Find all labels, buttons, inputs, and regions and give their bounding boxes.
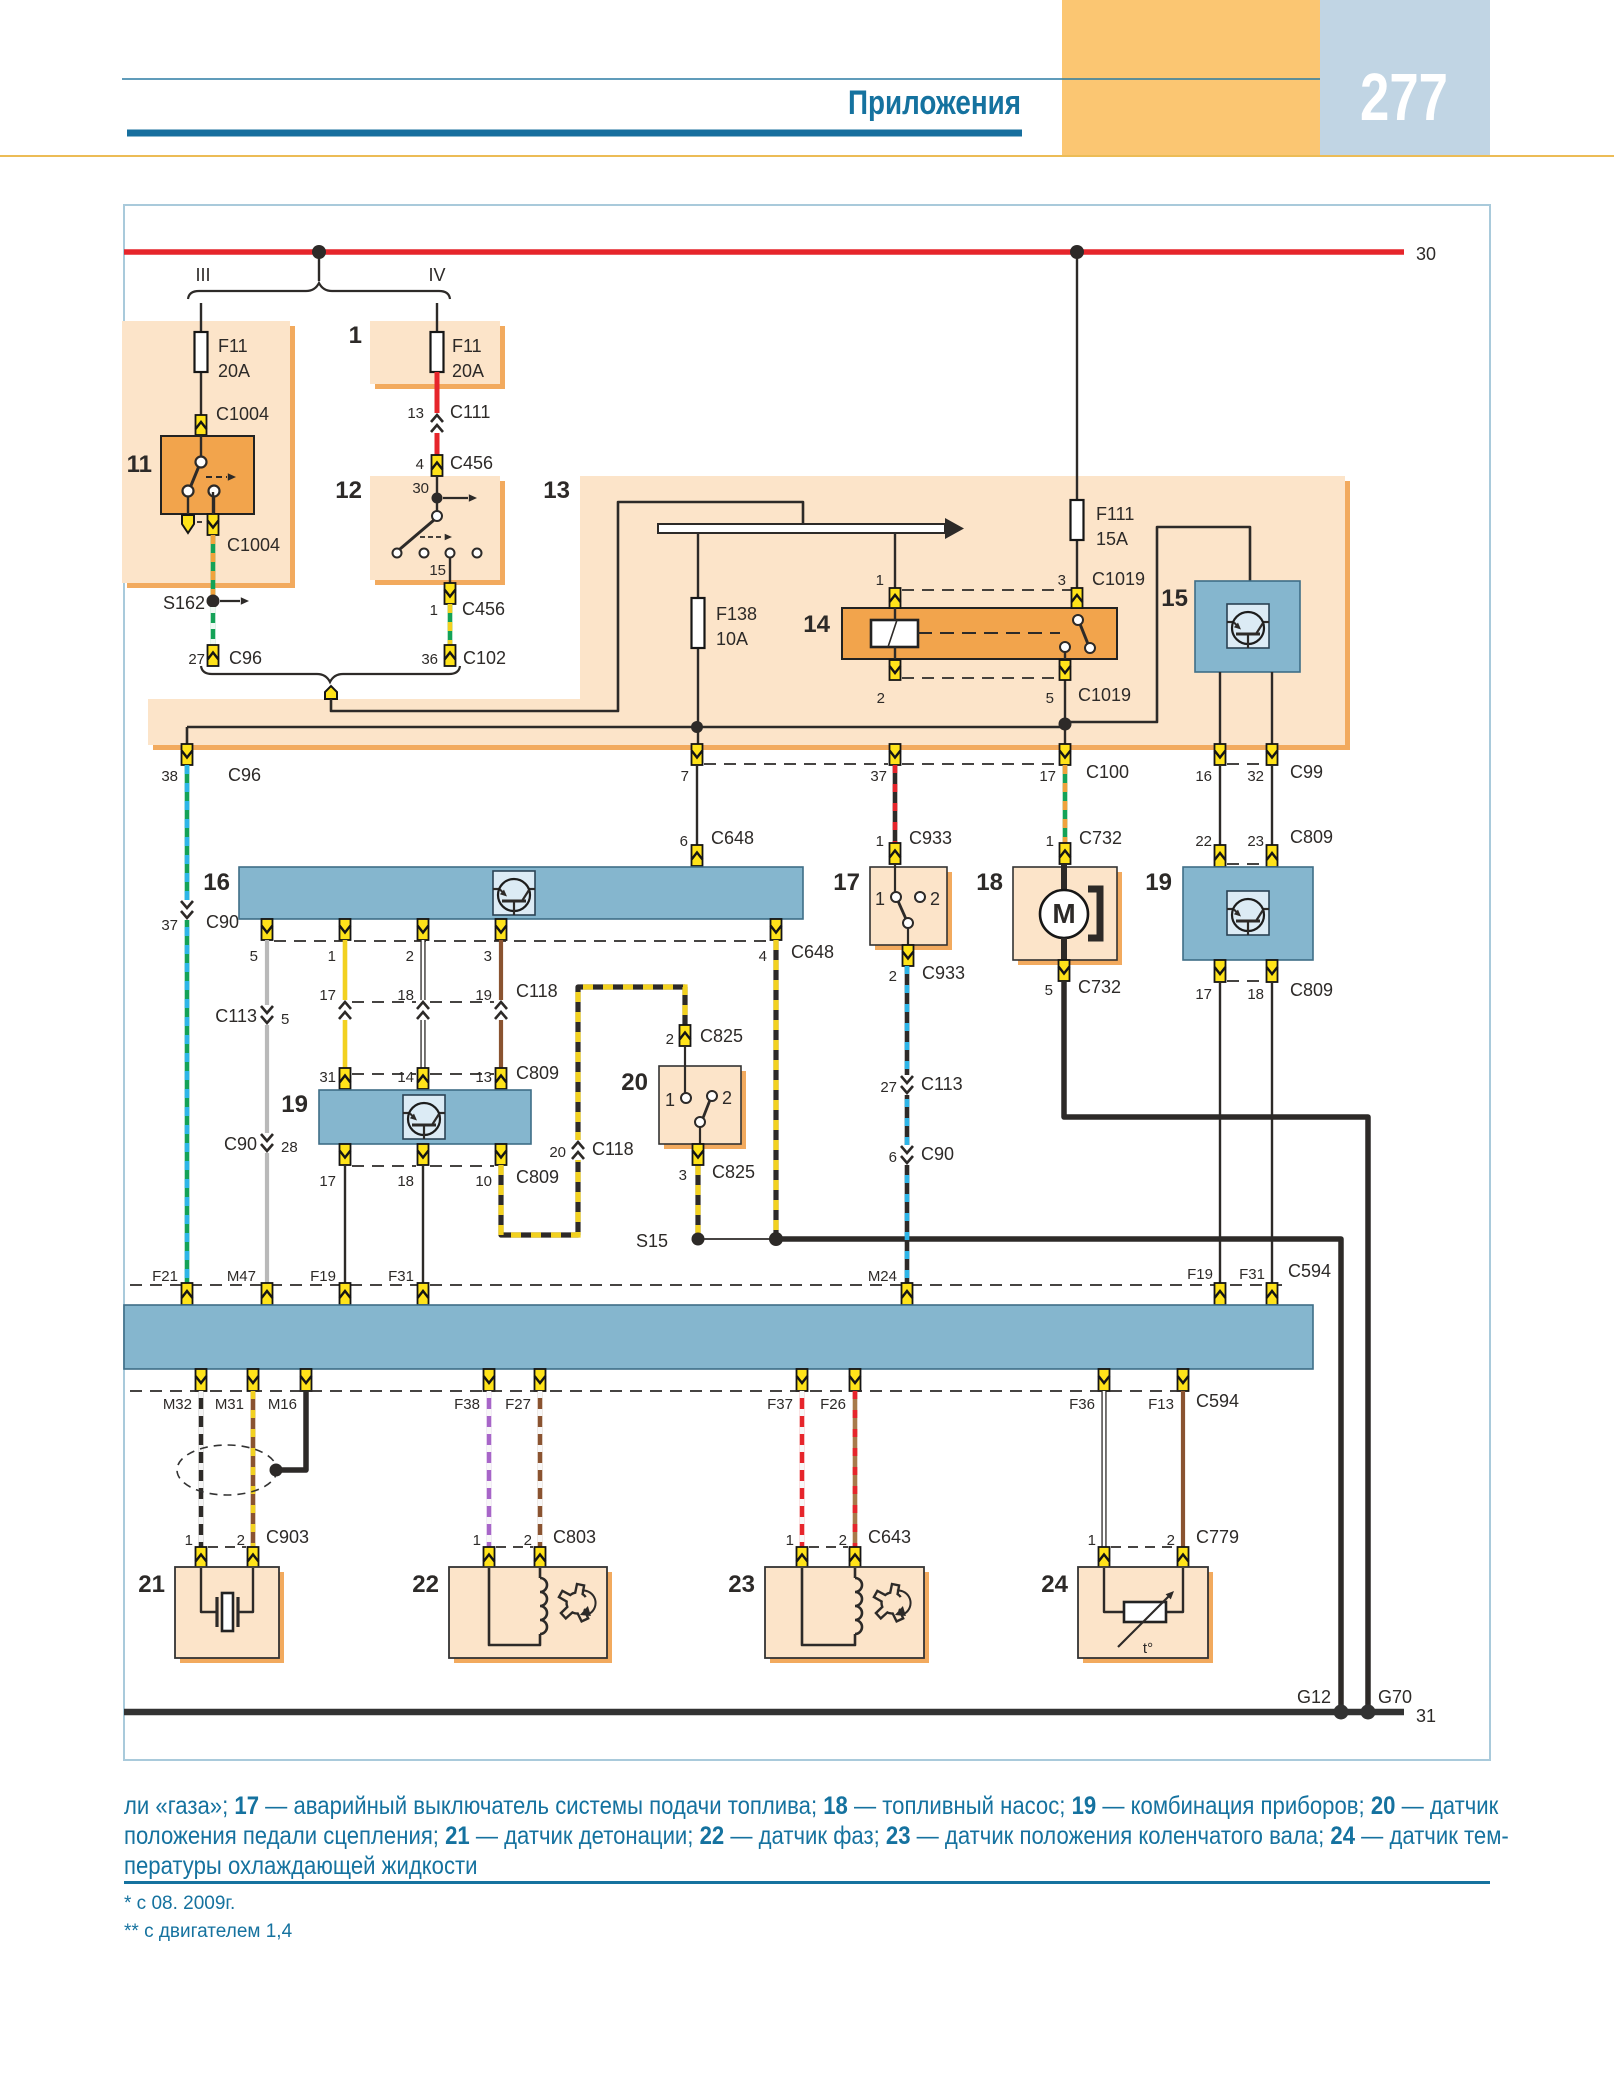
svg-text:M16: M16 bbox=[268, 1396, 297, 1413]
wire pentagon into box 13 bbox=[331, 502, 803, 711]
connector pin at x=306 (C594 bottom) bbox=[301, 1369, 312, 1391]
sensor box 22 shadow bbox=[454, 1572, 612, 1663]
wire pin5 junction to box 15 bbox=[1065, 527, 1250, 722]
node junction pin4 wire bbox=[769, 1232, 783, 1246]
connector pin at x=201 (C594 bottom) bbox=[196, 1369, 207, 1391]
yellow hairline bbox=[0, 155, 1614, 157]
svg-text:17: 17 bbox=[319, 987, 336, 1004]
connector pin at x=1183 (C594 bottom) bbox=[1178, 1369, 1189, 1391]
svg-text:1: 1 bbox=[1088, 1532, 1096, 1549]
thermistor symbol bbox=[1104, 1568, 1124, 1612]
connector pin 13 C809 bbox=[496, 1068, 507, 1089]
svg-text:F19: F19 bbox=[1187, 1266, 1213, 1283]
svg-text:12: 12 bbox=[335, 477, 362, 504]
sensor box 24 shadow bbox=[1083, 1572, 1213, 1663]
connector pin 1 C456 (bottom) bbox=[445, 583, 456, 604]
wire green/white S162 to C96 bbox=[211, 607, 216, 645]
fuse F111 15A bbox=[1071, 500, 1084, 540]
svg-text:37: 37 bbox=[161, 917, 178, 934]
gear symbol box 22 bbox=[559, 1584, 588, 1621]
connector pin at x=855 (C594 bottom) bbox=[850, 1369, 861, 1391]
connector pin at x=187 (C594 top) bbox=[182, 1283, 193, 1305]
connector pin 37 bbox=[890, 744, 901, 765]
svg-text:C594: C594 bbox=[1288, 1261, 1331, 1281]
relay 14 box bbox=[842, 608, 1117, 659]
svg-text:C779: C779 bbox=[1196, 1527, 1239, 1547]
transistor symbol module 15 bbox=[1227, 604, 1269, 648]
svg-text:Приложения: Приложения bbox=[848, 84, 1021, 122]
connector pin 4 C456 bbox=[432, 455, 443, 476]
connector pin 38 C96 bbox=[182, 744, 193, 765]
wire yellow pin1 bbox=[343, 940, 348, 1068]
svg-text:C1019: C1019 bbox=[1092, 569, 1145, 589]
component box 11 body bbox=[122, 321, 290, 583]
svg-text:3: 3 bbox=[1058, 572, 1066, 589]
svg-text:M47: M47 bbox=[227, 1268, 256, 1285]
svg-text:1: 1 bbox=[876, 833, 884, 850]
knock sensor symbol bbox=[201, 1568, 216, 1612]
wire brown/red F26 bbox=[853, 1391, 858, 1547]
splice 37 C90 bbox=[180, 900, 194, 920]
svg-text:3: 3 bbox=[679, 1167, 687, 1184]
wire pin7 to C648 bbox=[696, 765, 698, 845]
svg-text:F138: F138 bbox=[716, 604, 757, 624]
svg-text:C732: C732 bbox=[1079, 828, 1122, 848]
wire S15 link bbox=[698, 1238, 776, 1240]
component box 13 (fuse/relay box) shadow bbox=[153, 481, 1350, 750]
svg-text:C803: C803 bbox=[553, 1527, 596, 1547]
svg-text:C594: C594 bbox=[1196, 1391, 1239, 1411]
svg-text:F27: F27 bbox=[505, 1396, 531, 1413]
module 17 box shadow bbox=[875, 872, 952, 950]
svg-text:C90: C90 bbox=[921, 1144, 954, 1164]
wire 17 to F19 right bbox=[1219, 982, 1221, 1285]
sensor box 22 (phase sensor) bbox=[449, 1567, 607, 1658]
wire black/red pin37 to C933 bbox=[893, 765, 898, 843]
svg-text:5: 5 bbox=[1046, 690, 1054, 707]
svg-text:F31: F31 bbox=[1239, 1266, 1265, 1283]
dashed C594 bottom row bbox=[130, 1390, 1190, 1392]
svg-text:C825: C825 bbox=[712, 1162, 755, 1182]
svg-text:III: III bbox=[195, 265, 210, 285]
wire green/cyan 38C96 to F21 bbox=[185, 765, 190, 1285]
svg-text:C96: C96 bbox=[228, 765, 261, 785]
fuse F138 10A bbox=[692, 598, 705, 648]
module 19 right box bbox=[1183, 867, 1313, 960]
connector pin 23 C809 bbox=[1267, 845, 1278, 867]
wire yellow/black C825-3 to S15 bbox=[695, 1165, 700, 1236]
dashed C809 row bbox=[352, 1073, 416, 1075]
svg-text:C732: C732 bbox=[1078, 977, 1121, 997]
connector pin 2 C825 bbox=[680, 1025, 691, 1046]
dashed pin2-pin5 bbox=[902, 677, 1058, 679]
connector pin 1 C933 bbox=[890, 843, 901, 864]
node S15 bbox=[692, 1233, 705, 1246]
connector pin 4 of C648 row bbox=[771, 919, 782, 940]
svg-text:10A: 10A bbox=[716, 629, 748, 649]
node shield bbox=[270, 1464, 283, 1477]
svg-text:1: 1 bbox=[430, 602, 438, 619]
transistor symbol module 16 bbox=[493, 871, 535, 915]
svg-text:1: 1 bbox=[185, 1532, 193, 1549]
transistor symbol module 19 left bbox=[403, 1095, 445, 1139]
svg-text:16: 16 bbox=[1195, 768, 1212, 785]
node G12 bbox=[1334, 1705, 1349, 1720]
svg-text:4: 4 bbox=[759, 948, 767, 965]
sensor box 21 (knock sensor) bbox=[175, 1567, 279, 1658]
svg-text:18: 18 bbox=[976, 869, 1003, 896]
svg-text:20A: 20A bbox=[452, 361, 484, 381]
splice 6 C90 bbox=[900, 1145, 914, 1165]
svg-text:6: 6 bbox=[680, 833, 688, 850]
svg-text:1: 1 bbox=[876, 572, 884, 589]
coil symbol box 23 bbox=[802, 1568, 855, 1645]
svg-text:2: 2 bbox=[877, 690, 885, 707]
brace under C96/C102 bbox=[201, 666, 460, 682]
connector pin at x=489 (C594 bottom) bbox=[484, 1369, 495, 1391]
svg-text:36: 36 bbox=[421, 651, 438, 668]
connector pin 7 bbox=[692, 744, 703, 765]
thick ground wire S15 to G12 bbox=[776, 1239, 1341, 1712]
svg-text:27: 27 bbox=[880, 1079, 897, 1096]
svg-text:18: 18 bbox=[1247, 986, 1264, 1003]
splice C113 5 bbox=[260, 1005, 274, 1025]
svg-text:30: 30 bbox=[412, 480, 429, 497]
svg-text:C456: C456 bbox=[450, 453, 493, 473]
svg-text:1: 1 bbox=[1046, 833, 1054, 850]
module 19 bottom pins bbox=[340, 1144, 351, 1165]
module 15 pin wires bbox=[1219, 672, 1221, 745]
svg-text:F38: F38 bbox=[454, 1396, 480, 1413]
thick wire C732 to G70 bbox=[1064, 981, 1368, 1712]
svg-text:16: 16 bbox=[203, 869, 230, 896]
wire gray pin5 to M47 bbox=[265, 940, 269, 1285]
svg-text:C113: C113 bbox=[215, 1006, 257, 1026]
connector pin at x=345 (C594 top) bbox=[340, 1283, 351, 1305]
connector pin 5 of C648 row bbox=[262, 919, 273, 940]
svg-text:19: 19 bbox=[1145, 869, 1172, 896]
wires 16/32 to 22/23 bbox=[1219, 765, 1221, 845]
wire 31 ground bus bbox=[124, 1709, 1404, 1716]
wire yellow/black module16 pin4 to S15 bbox=[773, 940, 778, 1236]
transistor symbol module 19 right bbox=[1227, 891, 1269, 935]
svg-text:1: 1 bbox=[665, 1090, 675, 1110]
svg-text:2: 2 bbox=[237, 1532, 245, 1549]
header thick rule bbox=[127, 130, 1022, 137]
module 19 left box bbox=[319, 1090, 531, 1144]
svg-text:F13: F13 bbox=[1148, 1396, 1174, 1413]
header thin rule bbox=[122, 78, 1320, 80]
wire brown/white F27 bbox=[538, 1391, 543, 1547]
dashed C648 row bbox=[274, 940, 769, 942]
sensor box 23 shadow bbox=[770, 1572, 929, 1663]
connector pins 1/2 C803 bbox=[496, 1546, 533, 1548]
splice C90 28 bbox=[260, 1133, 274, 1153]
svg-text:24: 24 bbox=[1041, 1571, 1068, 1598]
wire pin18 to F31 bbox=[422, 1165, 424, 1285]
component box 1 (fuse box) shadow bbox=[375, 326, 505, 389]
svg-text:C825: C825 bbox=[700, 1026, 743, 1046]
dashed C594 top row bbox=[130, 1284, 1282, 1286]
svg-text:28: 28 bbox=[281, 1139, 298, 1156]
svg-text:C809: C809 bbox=[516, 1167, 559, 1187]
splice 27 C113 bbox=[900, 1075, 914, 1095]
connector pin 3 C825 bbox=[693, 1144, 704, 1165]
module 18 box bbox=[1013, 867, 1117, 960]
svg-text:C96: C96 bbox=[229, 648, 262, 668]
svg-text:22: 22 bbox=[1195, 833, 1212, 850]
svg-text:C118: C118 bbox=[516, 981, 558, 1001]
svg-text:13: 13 bbox=[407, 405, 424, 422]
relay pin 3 C1019 bbox=[1072, 588, 1083, 608]
svg-text:C648: C648 bbox=[711, 828, 754, 848]
wire brown/yellow M31 bbox=[251, 1391, 256, 1547]
bus arrow bar bbox=[658, 524, 945, 533]
connector pin 32 C99 bbox=[1267, 744, 1278, 765]
coil symbol box 22 bbox=[489, 1568, 540, 1645]
node G70 bbox=[1361, 1705, 1376, 1720]
connector pin 6 C648 bbox=[692, 845, 703, 866]
wire brown F13 bbox=[1181, 1391, 1185, 1547]
svg-text:t°: t° bbox=[1143, 1640, 1153, 1657]
internal bus wire of box 13 bbox=[187, 726, 1065, 729]
wire black/white M32 bbox=[199, 1391, 204, 1547]
svg-text:17: 17 bbox=[319, 1173, 336, 1190]
thick wire M16 to shield bbox=[280, 1391, 306, 1470]
svg-text:31: 31 bbox=[319, 1069, 336, 1086]
header blue block bbox=[1320, 0, 1490, 155]
connector pins 1/2 C643 bbox=[809, 1546, 848, 1548]
connector pin 16 bbox=[1215, 744, 1226, 765]
connector pin at x=253 (C594 bottom) bbox=[248, 1369, 259, 1391]
wire blue/black C933 to M24 bbox=[905, 966, 910, 1285]
relay pin 2 bbox=[890, 660, 901, 680]
wire 18 to F31 right bbox=[1271, 982, 1273, 1285]
svg-text:23: 23 bbox=[1247, 833, 1264, 850]
svg-text:2: 2 bbox=[839, 1532, 847, 1549]
svg-text:F111: F111 bbox=[1096, 504, 1134, 524]
svg-text:31: 31 bbox=[1416, 1706, 1436, 1726]
connector pin at x=907 (C594 top) bbox=[902, 1283, 913, 1305]
svg-text:C648: C648 bbox=[791, 942, 834, 962]
svg-text:C456: C456 bbox=[462, 599, 505, 619]
connector pin 1 of C648 row bbox=[340, 919, 351, 940]
wire F138 branch bbox=[697, 533, 699, 745]
svg-text:17: 17 bbox=[1039, 768, 1056, 785]
svg-text:C90: C90 bbox=[206, 912, 239, 932]
svg-text:10: 10 bbox=[475, 1173, 492, 1190]
switch 20 internals bbox=[684, 1046, 686, 1093]
connector pin 22 bbox=[1215, 845, 1226, 867]
wire yellow/black pin10 loop to C825 bbox=[501, 987, 685, 1235]
svg-text:F11: F11 bbox=[452, 336, 482, 356]
ECU box bbox=[124, 1305, 1313, 1369]
svg-text:C90: C90 bbox=[224, 1134, 257, 1154]
svg-text:F37: F37 bbox=[767, 1396, 793, 1413]
svg-text:F36: F36 bbox=[1069, 1396, 1095, 1413]
switch 11 contacts bbox=[200, 436, 202, 458]
svg-text:C100: C100 bbox=[1086, 762, 1129, 782]
module 18 box shadow bbox=[1018, 872, 1122, 965]
svg-text:G70: G70 bbox=[1378, 1687, 1412, 1707]
svg-text:15: 15 bbox=[1161, 585, 1188, 612]
connector pin 3 of C648 row bbox=[496, 919, 507, 940]
connector pin at x=1104 (C594 bottom) bbox=[1099, 1369, 1110, 1391]
connector pin at x=1220 (C594 top) bbox=[1215, 1283, 1226, 1305]
svg-text:14: 14 bbox=[397, 1069, 414, 1086]
connector pin at x=423 (C594 top) bbox=[418, 1283, 429, 1305]
svg-text:19: 19 bbox=[475, 987, 492, 1004]
relay 14 coil bbox=[871, 620, 918, 647]
module 16 box bbox=[239, 867, 803, 919]
svg-text:1: 1 bbox=[473, 1532, 481, 1549]
sensor box 23 (crankshaft sensor) bbox=[765, 1567, 924, 1658]
svg-text:5: 5 bbox=[1045, 982, 1053, 999]
ignition switch 11 inner box bbox=[161, 436, 254, 514]
svg-text:23: 23 bbox=[728, 1571, 755, 1598]
svg-text:C113: C113 bbox=[921, 1074, 963, 1094]
wire IV to fuse F11 bbox=[436, 303, 438, 332]
connector pin C1004 (bottom) bbox=[208, 514, 219, 535]
sensor box 21 shadow bbox=[180, 1572, 284, 1663]
module 17 box bbox=[870, 867, 947, 945]
svg-text:C99: C99 bbox=[1290, 762, 1323, 782]
svg-text:20: 20 bbox=[621, 1069, 648, 1096]
svg-text:37: 37 bbox=[870, 768, 887, 785]
svg-text:38: 38 bbox=[161, 768, 178, 785]
connector pin 5 C732 bbox=[1059, 960, 1070, 981]
brace III/IV bbox=[188, 283, 450, 299]
node junction on wire 30 (F111 tap) bbox=[1070, 245, 1084, 259]
component box 12 (ignition switch) shadow bbox=[375, 481, 505, 585]
wire III to fuse F11 bbox=[200, 303, 202, 436]
svg-text:F11: F11 bbox=[218, 336, 248, 356]
svg-text:5: 5 bbox=[250, 948, 258, 965]
wire red/white F37 bbox=[800, 1391, 805, 1547]
connector pin 2 of C648 row bbox=[418, 919, 429, 940]
svg-text:4: 4 bbox=[416, 456, 424, 473]
svg-text:21: 21 bbox=[138, 1571, 165, 1598]
relay pin 5 C1019 bbox=[1064, 652, 1066, 745]
svg-text:M31: M31 bbox=[215, 1396, 244, 1413]
splice 20 C118 bbox=[571, 1140, 585, 1160]
svg-text:1: 1 bbox=[328, 948, 336, 965]
wire purple/white F38 bbox=[487, 1391, 492, 1547]
svg-text:S162: S162 bbox=[163, 593, 205, 613]
svg-text:C111: C111 bbox=[450, 402, 490, 422]
svg-text:C933: C933 bbox=[909, 828, 952, 848]
module 19 right bottom pins bbox=[1215, 960, 1226, 982]
header yellow block bbox=[1062, 0, 1320, 155]
wire red fuse to C111 bbox=[435, 372, 440, 455]
dashed C809 row 2 bbox=[352, 1165, 416, 1167]
node S162 bbox=[207, 595, 220, 608]
svg-text:19: 19 bbox=[281, 1091, 308, 1118]
connector pin 36 C102 bbox=[445, 645, 456, 666]
dashed C118 row bbox=[352, 1001, 416, 1003]
relay pin 1 bbox=[894, 533, 896, 608]
diagram frame bbox=[124, 205, 1490, 1760]
wire white F36 bbox=[1101, 1391, 1106, 1547]
connector pin at x=1272 (C594 top) bbox=[1267, 1283, 1278, 1305]
splice 19 C118 bbox=[494, 1000, 508, 1020]
svg-text:C643: C643 bbox=[868, 1527, 911, 1547]
connector pin at x=267 (C594 top) bbox=[262, 1283, 273, 1305]
wire white pin2 bbox=[420, 940, 425, 1068]
svg-text:C102: C102 bbox=[463, 648, 506, 668]
svg-text:F26: F26 bbox=[820, 1396, 846, 1413]
svg-text:30: 30 bbox=[1416, 244, 1436, 264]
svg-text:14: 14 bbox=[803, 611, 830, 638]
svg-text:15: 15 bbox=[429, 562, 446, 579]
switch 17 internals bbox=[894, 864, 896, 892]
component box 12 body bbox=[370, 476, 500, 580]
svg-text:17: 17 bbox=[833, 869, 860, 896]
svg-text:13: 13 bbox=[543, 477, 570, 504]
svg-text:M32: M32 bbox=[163, 1396, 192, 1413]
fuse F11 (box 11) bbox=[195, 332, 208, 372]
svg-text:C1004: C1004 bbox=[216, 404, 269, 424]
relay coil vertical wires bbox=[894, 608, 896, 620]
connector pin 2 C933 bbox=[903, 945, 914, 966]
svg-text:C118: C118 bbox=[592, 1139, 634, 1159]
svg-text:18: 18 bbox=[397, 987, 414, 1004]
connector pin 1 C732 bbox=[1060, 843, 1071, 864]
svg-text:20: 20 bbox=[549, 1144, 566, 1161]
wire brown pin3 bbox=[499, 940, 503, 1068]
wire from contact 15 bbox=[449, 557, 451, 583]
motor M symbol bbox=[1061, 864, 1067, 890]
svg-text:C809: C809 bbox=[516, 1063, 559, 1083]
svg-text:20A: 20A bbox=[218, 361, 250, 381]
svg-text:2: 2 bbox=[524, 1532, 532, 1549]
connector pins 1/2 C903 bbox=[208, 1546, 246, 1548]
svg-text:1: 1 bbox=[875, 889, 885, 909]
svg-text:F21: F21 bbox=[152, 1268, 178, 1285]
arrow at S162 bbox=[220, 600, 240, 602]
dashed C100 row bbox=[704, 763, 888, 765]
svg-text:C1004: C1004 bbox=[227, 535, 280, 555]
svg-text:2: 2 bbox=[889, 968, 897, 985]
svg-text:C809: C809 bbox=[1290, 980, 1333, 1000]
wire pin17 to F19 bbox=[344, 1165, 346, 1285]
component box 11 (ignition switch unit) shadow bbox=[127, 326, 295, 588]
svg-text:6: 6 bbox=[889, 1149, 897, 1166]
splice 17 C118 bbox=[338, 1000, 352, 1020]
wire green/yellow C456 to C102 bbox=[448, 604, 453, 645]
svg-text:32: 32 bbox=[1247, 768, 1264, 785]
svg-text:M: M bbox=[1052, 898, 1075, 929]
svg-text:7: 7 bbox=[681, 768, 689, 785]
junction dot F138 bbox=[691, 721, 703, 733]
svg-text:C903: C903 bbox=[266, 1527, 309, 1547]
svg-text:C933: C933 bbox=[922, 963, 965, 983]
junction dot pin5 bus bbox=[1059, 718, 1072, 731]
svg-text:2: 2 bbox=[406, 948, 414, 965]
dashed pin1-pin3 bbox=[902, 589, 1071, 591]
svg-text:IV: IV bbox=[428, 265, 445, 285]
svg-text:5: 5 bbox=[281, 1011, 289, 1028]
svg-text:1: 1 bbox=[786, 1532, 794, 1549]
fuse F11 (box 1) bbox=[431, 332, 444, 372]
svg-text:S15: S15 bbox=[636, 1231, 668, 1251]
splice 13 C111 bbox=[430, 413, 444, 433]
node junction on wire 30 (III/IV tap) bbox=[312, 245, 326, 259]
svg-text:2: 2 bbox=[930, 889, 940, 909]
svg-text:13: 13 bbox=[475, 1069, 492, 1086]
sensor box 20 body bbox=[659, 1066, 741, 1144]
connector pin at x=540 (C594 bottom) bbox=[535, 1369, 546, 1391]
